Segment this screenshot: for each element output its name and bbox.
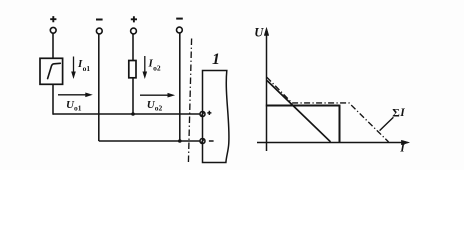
terminal T3 plus sign	[131, 16, 137, 22]
svg-text:o2: o2	[153, 64, 161, 73]
terminal T2 minus sign	[96, 19, 103, 21]
terminal T3 circle	[131, 28, 137, 34]
terminal T2 circle	[96, 28, 102, 34]
arrow Io2	[143, 56, 147, 78]
svg-text:o2: o2	[155, 104, 163, 113]
terminal T1 circle	[50, 27, 56, 33]
arrow Io1	[72, 57, 76, 79]
minus rail wire	[99, 140, 200, 142]
svg-text:I: I	[399, 107, 405, 119]
arrow Uo2	[140, 93, 174, 97]
characteristic Uo1 diagonal	[267, 81, 331, 142]
graph U axis	[264, 28, 269, 152]
terminal T1 plus sign	[50, 16, 56, 22]
load box 1 outline	[203, 71, 229, 163]
graph I axis	[257, 140, 409, 145]
plus polarity mark	[207, 111, 211, 115]
wire T2 down to minus rail	[98, 34, 100, 141]
curve inside box U1	[48, 63, 61, 78]
arrow Uo1	[58, 93, 92, 97]
resistor R	[129, 61, 136, 78]
wire T1 to box	[52, 33, 54, 58]
wire T3 lower	[132, 78, 134, 115]
current-limiter source box U1	[40, 58, 63, 84]
plus rail wire	[53, 113, 200, 115]
svg-text:I: I	[399, 143, 405, 155]
junction dot T4 on minus rail	[178, 139, 182, 143]
svg-text:o1: o1	[83, 64, 91, 73]
wire T3 upper	[132, 34, 134, 60]
slash on plus socket	[200, 112, 204, 117]
wire T1 below box	[52, 84, 54, 114]
junction dot T3 on plus rail	[131, 112, 135, 116]
svg-text:U: U	[254, 25, 264, 39]
characteristic Uo2 rectangle top	[266, 105, 340, 107]
leader line to Sigma I label	[380, 117, 394, 130]
characteristic Uo2 rectangle right edge	[339, 105, 341, 142]
wire T4 down to minus rail	[179, 33, 181, 141]
svg-text:Σ: Σ	[392, 108, 400, 120]
terminal T4 minus sign	[176, 18, 183, 20]
svg-text:1: 1	[212, 51, 220, 68]
minus polarity mark	[209, 140, 214, 142]
socket circle minus input	[200, 139, 205, 144]
terminal T4 circle	[177, 27, 183, 33]
sum characteristic dash-dot curve	[267, 77, 389, 142]
svg-text:o1: o1	[74, 104, 82, 113]
socket circle plus input	[200, 112, 205, 117]
slash on minus socket	[200, 139, 204, 144]
enclosure boundary dash-dot line	[188, 39, 191, 164]
